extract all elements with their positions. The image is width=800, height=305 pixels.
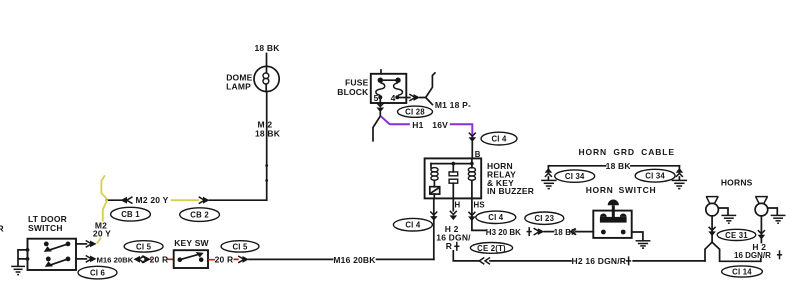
wire yellow branch down to door switch (103, 200, 108, 222)
svg-text:R: R (446, 241, 452, 251)
ellipse CE 2(T) (470, 243, 512, 254)
ground left horn grd cable (541, 180, 556, 188)
svg-text:CI 4: CI 4 (491, 135, 507, 144)
pin dot 4 (395, 95, 399, 99)
wire relay H pin down (452, 198, 454, 210)
svg-text:CI 34: CI 34 (565, 172, 585, 181)
svg-text:HS: HS (474, 200, 485, 209)
svg-text:20 R: 20 R (150, 255, 169, 265)
wire H pin to H2 run (453, 251, 479, 261)
svg-text:CI 5: CI 5 (136, 242, 152, 251)
ellipse CI 4 right (476, 211, 516, 223)
svg-text:BLOCK: BLOCK (337, 87, 369, 97)
svg-text:M16 20BK: M16 20BK (333, 255, 376, 265)
horn switch contact dots (601, 230, 626, 235)
wire contact to box bottom (433, 194, 435, 198)
wire pin 5 below arrow (379, 112, 381, 116)
connector CB 2 arrows (199, 197, 210, 204)
wire horn switch to ground (632, 232, 643, 240)
svg-text:IN BUZZER: IN BUZZER (487, 186, 534, 196)
svg-text:16 DGN/R: 16 DGN/R (734, 251, 771, 260)
relay capacitor (449, 164, 458, 199)
junction dot bus/capacitor (452, 162, 456, 166)
splice symbol right horn lead (777, 250, 782, 259)
horn left body (706, 203, 719, 216)
wire M2 18 BK dome lamp to junction (266, 92, 268, 201)
ellipse CI 14 (722, 266, 763, 277)
horn right body (755, 203, 768, 216)
ellipse CI 4 left (393, 218, 432, 231)
lt door switch upper contacts (44, 242, 71, 252)
svg-text:CI 4: CI 4 (488, 213, 504, 222)
leader to M1 label (426, 98, 433, 105)
horn right bell (755, 197, 768, 204)
connector arrows after key switch (238, 256, 249, 263)
arrow down HS pin (468, 212, 476, 221)
svg-text:5: 5 (374, 93, 379, 103)
pin dot 5 (378, 95, 382, 99)
key switch contacts (178, 252, 204, 262)
svg-text:20 R: 20 R (215, 255, 234, 265)
junction dot (26, 248, 30, 252)
svg-text:M1 18 P-: M1 18 P- (435, 100, 471, 110)
horn switch box (593, 211, 631, 238)
fuse block box (371, 74, 407, 103)
wire door switch bottom output (76, 258, 86, 260)
fuse element pin 5 (376, 83, 385, 95)
svg-text:CE 31: CE 31 (725, 231, 748, 240)
ellipse CB 2 (180, 208, 220, 222)
wire horn right lead down (760, 216, 763, 261)
ellipse CI 6 (78, 266, 117, 279)
svg-text:20 Y: 20 Y (93, 228, 111, 238)
wire horn left lead down (711, 216, 713, 242)
arrow down horn right lead (758, 230, 766, 239)
svg-text:KEY SW: KEY SW (174, 238, 209, 248)
svg-text:CI 6: CI 6 (90, 269, 106, 278)
dome lamp L1 (254, 66, 279, 91)
connector pair before key switch (134, 256, 151, 263)
svg-text:CI 14: CI 14 (732, 267, 752, 276)
arrow down H pin (450, 211, 458, 220)
svg-text:HORN GRD CABLE: HORN GRD CABLE (578, 147, 675, 157)
arrow down horn left lead (708, 227, 716, 236)
relay contact box (430, 187, 440, 194)
chevrons on H2 run (479, 258, 490, 265)
horn grd cable right end arrow (676, 166, 684, 180)
svg-text:H3 20 BK: H3 20 BK (486, 228, 521, 237)
wire junction to connector CB1 (107, 199, 122, 201)
wire to 18 BK (544, 231, 553, 233)
horn switch plunger (600, 200, 627, 223)
wire door switch top output (76, 243, 86, 245)
svg-text:18 BK: 18 BK (254, 43, 280, 53)
wire dome lamp top stub (266, 54, 268, 67)
connector CB 1 arrows (121, 197, 133, 204)
ellipse CI 5 right (221, 241, 259, 252)
svg-text:CI 4: CI 4 (405, 221, 421, 230)
key switch box (174, 250, 208, 268)
horn relay box (425, 158, 482, 198)
wire pin 5 down (379, 99, 381, 106)
ellipse CB 1 (111, 207, 151, 221)
wire M16 20BK run to horn relay (249, 258, 434, 260)
ellipse CI 5 left (124, 241, 163, 252)
horn grd cable left end arrow (545, 166, 553, 180)
svg-text:HORNS: HORNS (721, 178, 753, 188)
svg-text:CE 2(T): CE 2(T) (477, 244, 506, 253)
svg-text:LAMP: LAMP (226, 81, 251, 91)
splice symbol on H3 (527, 227, 532, 236)
ground door switch (11, 266, 25, 274)
wire horn ground cable (548, 165, 679, 167)
ground horn left (721, 215, 736, 223)
relay coil right (468, 158, 475, 198)
fuse block bus (378, 78, 401, 83)
wire yellow hook into door switch arrow (97, 238, 101, 244)
svg-text:18 BK: 18 BK (255, 128, 281, 138)
ellipse CI 4 top (481, 132, 517, 145)
wire relay left pin down to M16 run (433, 198, 435, 259)
wire horn right to ground (768, 208, 778, 215)
lt door switch S1 box (28, 239, 77, 270)
wire fork at left horn (705, 242, 761, 261)
svg-text:CB 1: CB 1 (121, 210, 140, 219)
ground right horn grd cable (672, 180, 687, 188)
wire black branch down left (cut) (373, 116, 380, 141)
svg-text:H: H (455, 200, 461, 209)
ellipse CI 23 (525, 212, 564, 224)
wire H2 run to horns (633, 260, 705, 262)
svg-text:16 DGN/: 16 DGN/ (436, 233, 471, 243)
wire CB2 to dome lamp riser (210, 199, 267, 201)
svg-text:SWITCH: SWITCH (28, 223, 63, 233)
junction dot bus/B (470, 162, 474, 166)
wire red 20 R to key switch (150, 258, 174, 260)
wire pin 4 output (399, 97, 410, 99)
ellipse CI 34 right (635, 169, 675, 182)
label HORN RELAY & KEY IN BUZZER (487, 161, 534, 196)
wire fuse block top stub (380, 70, 382, 74)
junction dot (265, 179, 268, 182)
splice symbol on H2 run (626, 256, 631, 265)
svg-text:CI 5: CI 5 (232, 242, 248, 251)
svg-text:4: 4 (391, 93, 396, 103)
wire M2 20 Y yellow from above (101, 175, 107, 199)
connector arrows door switch top (86, 241, 97, 248)
svg-text:R: R (0, 223, 4, 233)
chevron after 18 BK (571, 228, 576, 234)
wire to M1 branch (420, 73, 435, 98)
junction dot (26, 257, 30, 261)
arrow down relay left pin (430, 212, 438, 221)
relay internal bus (431, 163, 472, 165)
wire relay HS pin down (472, 198, 486, 230)
svg-text:CI 34: CI 34 (645, 172, 665, 181)
ellipse CI 34 left (555, 170, 595, 182)
wire black into relay B (471, 142, 473, 158)
svg-text:M2 20 Y: M2 20 Y (136, 195, 169, 205)
svg-text:CB 2: CB 2 (190, 211, 209, 220)
horn left bell (706, 197, 719, 204)
ellipse CI 28 (398, 106, 433, 117)
splice symbol on H2 (454, 242, 459, 251)
arrow down pin 5 (377, 103, 385, 112)
junction dot (265, 164, 268, 167)
ground horn right (771, 215, 786, 223)
svg-text:16V: 16V (432, 120, 448, 130)
svg-text:H1: H1 (412, 120, 423, 130)
svg-text:CI 23: CI 23 (534, 214, 554, 223)
arrow down on B lead (469, 133, 477, 142)
svg-text:18 BK: 18 BK (606, 161, 632, 171)
svg-text:HORN SWITCH: HORN SWITCH (586, 185, 657, 195)
ground horn switch (636, 241, 651, 248)
connector arrows pin 4 (409, 94, 420, 101)
ellipse CE 31 (717, 229, 756, 240)
svg-text:H2 16 DGN/R: H2 16 DGN/R (572, 256, 627, 266)
wire purple H1 16V right segment (450, 124, 473, 140)
wire yellow segment to CB2 (171, 199, 199, 201)
connector arrows on H3 (534, 228, 545, 235)
wire red 20 R after key switch (208, 258, 239, 260)
wire 18 BK to horn switch (576, 231, 594, 233)
wire door switch left stubs to ground (18, 250, 28, 266)
relay coil left (431, 164, 438, 187)
svg-text:M16 20BK: M16 20BK (97, 255, 134, 264)
wire H2 run middle (490, 260, 571, 262)
lt door switch lower contacts (45, 257, 71, 267)
wire horn left to ground (718, 208, 728, 215)
svg-text:CI 28: CI 28 (405, 108, 425, 117)
connector arrows door switch bottom (86, 256, 97, 263)
wire purple H1 16V left segment (381, 116, 410, 124)
label H 2 16 DGN/ R (436, 224, 471, 251)
fuse element pin 4 (394, 83, 403, 95)
